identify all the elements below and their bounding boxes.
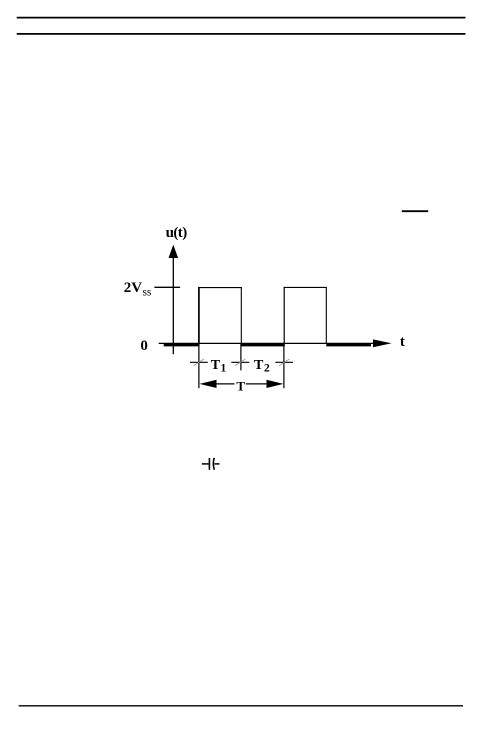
- blank underline: [402, 210, 428, 212]
- capacitor curved plate: [212, 458, 215, 470]
- 2Vss tick: [154, 286, 180, 288]
- extension line pulse 1 right: [240, 344, 242, 370]
- dimension tick 2: [231, 359, 249, 366]
- x-axis arrowhead: [373, 339, 392, 347]
- pulse 2 left edge: [283, 287, 285, 344]
- capacitor straight plate: [208, 458, 210, 470]
- svg-text:T2: T2: [254, 358, 270, 374]
- dimension tick 3: [275, 359, 293, 366]
- waveform low segment 2: [241, 343, 284, 346]
- x-axis: [159, 342, 376, 344]
- svg-text:u(t): u(t): [166, 225, 188, 241]
- svg-text:t: t: [400, 334, 405, 350]
- header rule top: [17, 17, 466, 19]
- capacitor left lead: [202, 463, 209, 465]
- pulse 1 top: [198, 287, 242, 289]
- capacitor right lead: [214, 463, 219, 465]
- extension line pulse 2 left: [283, 344, 285, 388]
- T dimension arrow left head: [200, 380, 217, 388]
- y-axis: [172, 252, 174, 354]
- T dimension arrow right shaft: [246, 383, 269, 385]
- y-axis arrowhead: [169, 245, 179, 258]
- svg-text:0: 0: [140, 338, 148, 354]
- svg-text:T1: T1: [211, 358, 227, 374]
- svg-text:2Vss: 2Vss: [124, 280, 152, 299]
- pulse 1 left edge: [198, 287, 200, 344]
- waveform low segment 3: [326, 343, 371, 346]
- capacitor symbol: [202, 458, 220, 470]
- header rule bottom: [17, 33, 466, 35]
- footer rule: [19, 705, 463, 707]
- pulse 2 top: [284, 286, 327, 288]
- pulse 2 right edge: [325, 287, 327, 344]
- dimension tick 1: [190, 359, 208, 366]
- svg-text:T: T: [236, 379, 245, 394]
- extension line pulse 1 left: [198, 344, 200, 388]
- T dimension arrow right head: [267, 380, 284, 388]
- pulse 1 right edge: [240, 287, 242, 344]
- waveform low segment 1: [164, 343, 200, 346]
- T dimension arrow left shaft: [214, 383, 235, 385]
